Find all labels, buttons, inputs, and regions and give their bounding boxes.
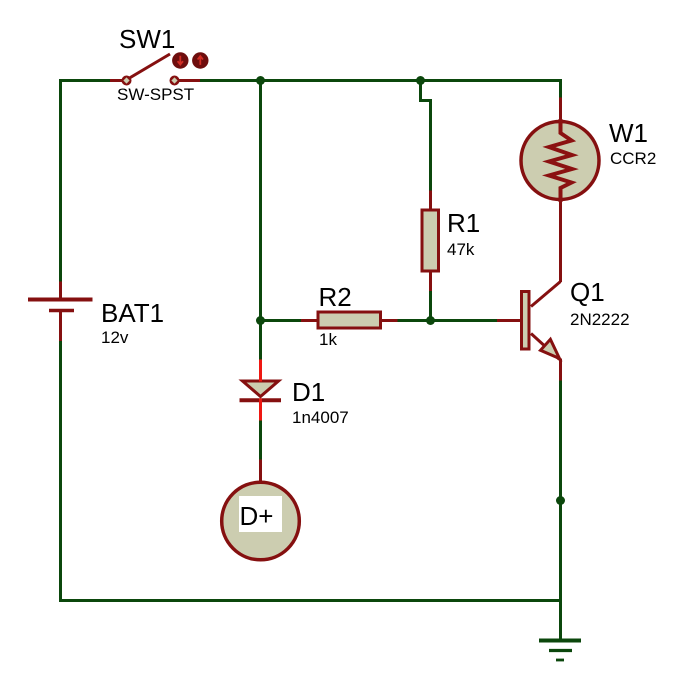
svg-text:R2: R2 bbox=[319, 282, 352, 312]
svg-text:SW-SPST: SW-SPST bbox=[117, 85, 194, 104]
svg-text:W1: W1 bbox=[609, 118, 648, 148]
svg-text:1k: 1k bbox=[319, 330, 337, 349]
svg-text:47k: 47k bbox=[447, 240, 475, 259]
svg-text:D+: D+ bbox=[240, 501, 274, 531]
svg-text:1n4007: 1n4007 bbox=[292, 408, 349, 427]
svg-text:12v: 12v bbox=[101, 328, 129, 347]
svg-text:R1: R1 bbox=[447, 208, 480, 238]
svg-text:Q1: Q1 bbox=[570, 277, 605, 307]
svg-text:CCR2: CCR2 bbox=[610, 149, 656, 168]
svg-text:SW1: SW1 bbox=[119, 24, 175, 54]
svg-text:D1: D1 bbox=[292, 377, 325, 407]
svg-text:2N2222: 2N2222 bbox=[570, 310, 630, 329]
svg-text:BAT1: BAT1 bbox=[101, 298, 164, 328]
